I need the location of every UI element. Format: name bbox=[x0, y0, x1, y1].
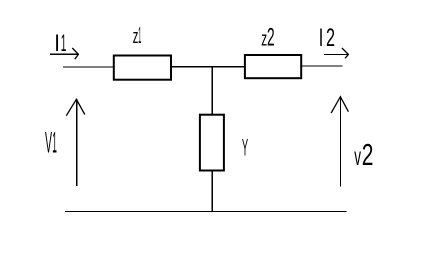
wire Y to ground rail bbox=[212, 171, 214, 213]
svg-text:I: I bbox=[319, 24, 324, 51]
label z2 bbox=[261, 25, 274, 52]
svg-text:z: z bbox=[133, 26, 139, 48]
current label I1 bbox=[54, 29, 66, 56]
svg-text:I: I bbox=[54, 29, 60, 56]
wire Z1 to node bbox=[171, 66, 245, 67]
wire port1 to Z1 bbox=[63, 67, 114, 68]
svg-text:2: 2 bbox=[362, 137, 374, 172]
impedance Z1 bbox=[114, 56, 171, 80]
wire node to Y bbox=[212, 67, 214, 115]
svg-text:z: z bbox=[261, 29, 267, 51]
impedance Z2 bbox=[245, 55, 301, 78]
svg-text:1: 1 bbox=[138, 23, 141, 49]
svg-text:1: 1 bbox=[52, 125, 57, 159]
ground rail wire bbox=[65, 211, 347, 212]
voltage label v2 bbox=[354, 137, 373, 172]
admittance Y bbox=[200, 115, 224, 171]
svg-text:Y: Y bbox=[242, 135, 248, 161]
wire Z2 to port2 bbox=[301, 65, 342, 66]
current label I2 bbox=[319, 24, 335, 51]
svg-text:1: 1 bbox=[61, 29, 67, 56]
voltage arrow V1 bbox=[66, 99, 85, 186]
label Y bbox=[242, 135, 248, 161]
label z1 bbox=[133, 23, 142, 49]
svg-text:V: V bbox=[45, 126, 52, 159]
current arrow I2 bbox=[324, 48, 349, 58]
svg-text:v: v bbox=[354, 143, 361, 172]
voltage arrow V2 bbox=[331, 97, 348, 187]
svg-text:2: 2 bbox=[267, 25, 275, 52]
voltage label V1 bbox=[45, 125, 57, 159]
current arrow I1 bbox=[50, 48, 78, 59]
svg-text:2: 2 bbox=[326, 24, 335, 51]
